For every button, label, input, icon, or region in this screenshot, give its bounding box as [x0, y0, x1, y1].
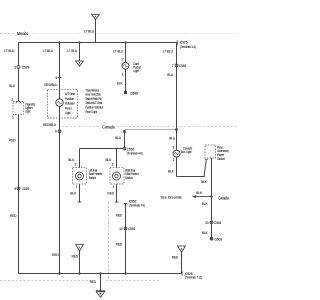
svg-text:1: 1	[113, 185, 115, 189]
svg-text:RED: RED	[90, 279, 97, 283]
svg-text:LT BLU: LT BLU	[43, 49, 53, 53]
svg-text:2: 2	[122, 57, 124, 61]
svg-text:1: 1	[122, 72, 124, 76]
svg-text:BLK: BLK	[196, 191, 202, 195]
svg-text:Box Light: Box Light	[181, 150, 192, 155]
svg-text:C581: C581	[179, 63, 186, 67]
svg-text:G503: G503	[214, 237, 222, 241]
svg-text:RED: RED	[10, 214, 17, 218]
svg-text:Light: Light	[133, 68, 139, 73]
svg-text:2: 2	[173, 145, 175, 149]
svg-text:Socket: Socket	[217, 156, 225, 161]
svg-text:1: 1	[173, 158, 175, 162]
svg-text:2: 2	[12, 98, 14, 102]
svg-text:RED: RED	[52, 253, 59, 257]
svg-text:6: 6	[55, 129, 57, 133]
svg-text:Mexico: Mexico	[17, 31, 28, 36]
svg-text:RED/BLU: RED/BLU	[44, 82, 58, 86]
svg-text:Switch: Switch	[89, 175, 97, 180]
svg-text:RED: RED	[9, 138, 16, 142]
svg-text:LT BLU: LT BLU	[163, 49, 173, 53]
svg-text:G588: G588	[130, 91, 138, 95]
svg-text:B: B	[79, 62, 81, 66]
svg-text:BLU: BLU	[68, 158, 74, 162]
svg-text:C581: C581	[214, 220, 221, 224]
svg-text:BLK: BLK	[202, 202, 208, 206]
svg-text:7: 7	[172, 63, 174, 67]
svg-text:10: 10	[119, 226, 122, 230]
svg-text:RED: RED	[72, 254, 79, 258]
svg-text:See Grounds: See Grounds	[161, 195, 182, 199]
svg-text:BLK: BLK	[201, 180, 207, 184]
svg-text:BLK: BLK	[168, 169, 174, 173]
svg-text:BLU: BLU	[105, 158, 111, 162]
svg-text:C581: C581	[128, 226, 135, 230]
svg-text:RED: RED	[116, 242, 123, 246]
svg-text:B: B	[181, 248, 183, 252]
svg-text:1: 1	[76, 185, 78, 189]
svg-text:Light: Light	[25, 109, 31, 114]
svg-text:BLK: BLK	[202, 231, 208, 235]
svg-text:(Terminals 4-8): (Terminals 4-8)	[127, 151, 143, 156]
svg-text:A: A	[79, 246, 81, 250]
svg-text:LT BLU: LT BLU	[113, 49, 123, 53]
svg-text:BLU: BLU	[9, 83, 15, 87]
svg-text:Light: Light	[65, 110, 71, 115]
svg-text:20: 20	[205, 220, 208, 224]
svg-text:BLU: BLU	[115, 136, 121, 140]
svg-text:RED: RED	[172, 255, 179, 259]
svg-text:2: 2	[75, 162, 77, 166]
svg-text:BLK: BLK	[117, 81, 123, 85]
svg-text:RED/BLU: RED/BLU	[43, 122, 57, 126]
svg-text:BLU: BLU	[169, 136, 175, 140]
svg-text:LT BLU: LT BLU	[84, 29, 94, 33]
svg-text:RED: RED	[107, 191, 114, 195]
svg-text:LT BLU: LT BLU	[4, 49, 14, 53]
svg-text:(Terminals 1-6): (Terminals 1-6)	[180, 45, 196, 50]
svg-text:1: 1	[12, 115, 14, 119]
svg-text:C529: C529	[22, 65, 29, 69]
svg-text:LT BLU: LT BLU	[67, 49, 77, 53]
svg-text:A: A	[95, 15, 97, 19]
svg-text:5: 5	[15, 186, 17, 190]
svg-text:RED: RED	[116, 213, 123, 217]
svg-text:C525: C525	[22, 186, 29, 190]
svg-text:Panel Light: Panel Light	[85, 109, 97, 114]
svg-text:5: 5	[56, 76, 58, 80]
svg-text:Canada: Canada	[102, 124, 115, 129]
svg-text:BLK: BLK	[70, 191, 76, 195]
svg-text:Canada: Canada	[218, 196, 228, 201]
svg-text:(Terminals 7-12): (Terminals 7-12)	[185, 275, 202, 280]
svg-text:Switch: Switch	[125, 175, 133, 180]
svg-text:6: 6	[15, 65, 17, 69]
svg-text:2: 2	[112, 162, 114, 166]
svg-text:BLU: BLU	[167, 73, 173, 77]
svg-text:(Terminals 7-9): (Terminals 7-9)	[129, 203, 145, 208]
